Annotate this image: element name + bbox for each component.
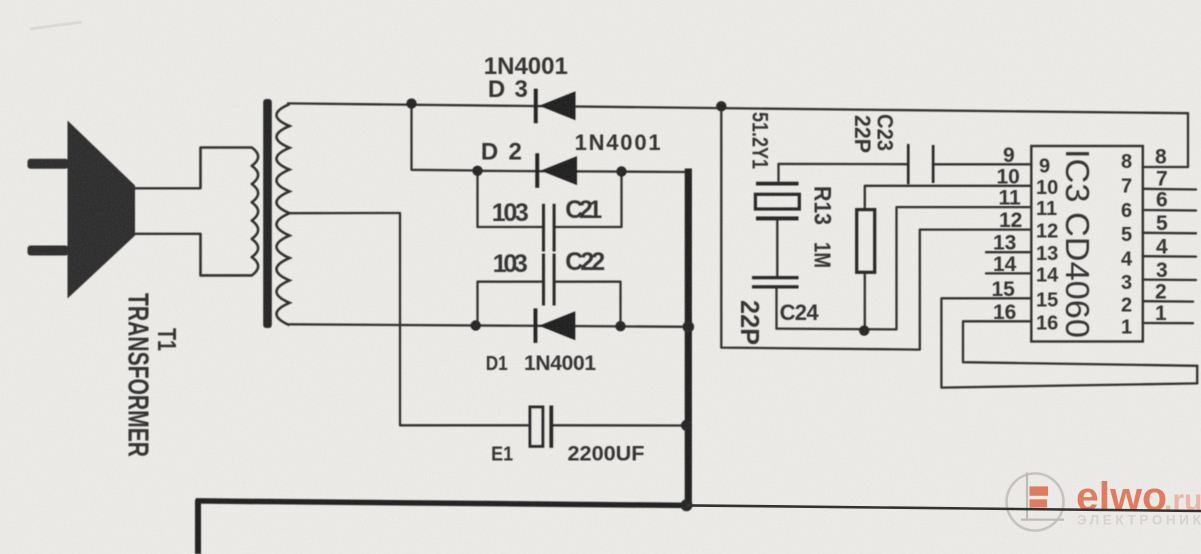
thick ground bus bottom xyxy=(196,501,687,506)
wire C22 left branch xyxy=(478,282,542,326)
diode D3 xyxy=(534,89,576,124)
wire pin 7 stub xyxy=(1143,188,1196,191)
diode D1 xyxy=(534,308,576,343)
electrolytic capacitor E1 xyxy=(530,406,553,448)
wire plug to primary top xyxy=(135,187,201,189)
wire right edge joint xyxy=(1196,366,1198,384)
IC3 CD4060 body xyxy=(1031,146,1143,342)
wire crystal top to C23 xyxy=(779,164,909,181)
thick positive bus vertical xyxy=(685,169,692,506)
elwo watermark logo circle xyxy=(1007,474,1064,531)
junction node rail/D2 branch xyxy=(406,98,416,108)
capacitor C22 plates xyxy=(542,254,556,306)
thick ground bus left drop xyxy=(195,500,201,554)
transformer T1 primary winding xyxy=(201,148,259,276)
wire top positive rail xyxy=(288,103,1188,167)
elwo logo base stroke xyxy=(1021,518,1064,520)
junction node R13 bottom xyxy=(859,325,869,335)
wire C21 right branch xyxy=(556,172,622,228)
wire C23 to pin 9 xyxy=(933,163,1031,165)
wire pin 6 stub xyxy=(1143,209,1196,212)
elwo logo orange bar middle xyxy=(1030,499,1048,507)
wire pin 16 net xyxy=(963,321,1197,366)
wire pin 15 net xyxy=(941,298,1197,387)
wire plug to primary bottom xyxy=(135,233,201,235)
wire pin 13 stub xyxy=(986,251,1031,253)
elwo logo vertical stroke xyxy=(1026,472,1028,520)
wire C22 right branch xyxy=(556,282,621,326)
wire bottom rail to pin 11 xyxy=(777,207,1032,329)
wire C21 left branch xyxy=(478,171,542,227)
resistor R13 body xyxy=(857,210,875,273)
capacitor C21 plates xyxy=(542,204,556,252)
wire transformer middle tap to E1 xyxy=(290,213,530,425)
wire crystal bottom to C24 xyxy=(776,220,778,276)
capacitor C23 plates xyxy=(907,144,935,184)
AC plug prong upper xyxy=(28,159,69,169)
AC plug body xyxy=(68,121,136,299)
wire pin 1 stub xyxy=(1143,322,1193,325)
AC plug prong lower xyxy=(28,246,69,256)
junction node E1/bus xyxy=(681,420,692,431)
wire pin 14 stub xyxy=(986,272,1031,274)
ground bus thin continuation xyxy=(686,505,1201,511)
crystal Y1 xyxy=(755,182,799,221)
wire pin 5 stub xyxy=(1143,232,1196,235)
junction node D2 left xyxy=(472,166,482,176)
transformer T1 core xyxy=(263,99,272,328)
faint scan streak xyxy=(30,22,82,29)
wire pin 2 stub xyxy=(1143,300,1193,303)
junction node D1 right xyxy=(615,321,625,331)
transformer T1 secondary winding upper xyxy=(277,104,290,213)
elwo logo orange bar top xyxy=(1030,486,1049,495)
junction node rail/crystal frame xyxy=(716,101,726,111)
junction node D1 left xyxy=(471,320,481,330)
wire C24 bottom xyxy=(775,289,777,329)
wire pin 3 stub xyxy=(1143,278,1196,281)
wire crystal frame: rail to pin 12 xyxy=(721,106,1031,349)
capacitor C24 plates xyxy=(752,276,799,289)
wire R13 bottom lead xyxy=(864,274,866,331)
junction node D2 right xyxy=(616,166,626,176)
wire D1 line xyxy=(290,324,689,327)
diode D2 xyxy=(535,153,577,188)
junction node bus/ground xyxy=(681,499,693,511)
wire R13 top lead to pin 10 xyxy=(865,186,1032,209)
wire pin 4 stub xyxy=(1143,255,1196,258)
junction node D1/bus xyxy=(683,321,695,333)
wire D2 line xyxy=(478,171,689,172)
wire to diode D2 anode xyxy=(412,104,478,171)
wire E1 right lead xyxy=(553,424,687,427)
transformer T1 secondary winding lower xyxy=(277,213,290,325)
